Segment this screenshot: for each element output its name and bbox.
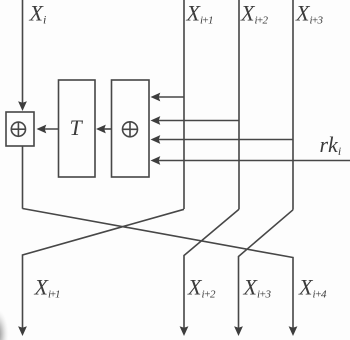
svg-text:T: T [70, 115, 84, 140]
